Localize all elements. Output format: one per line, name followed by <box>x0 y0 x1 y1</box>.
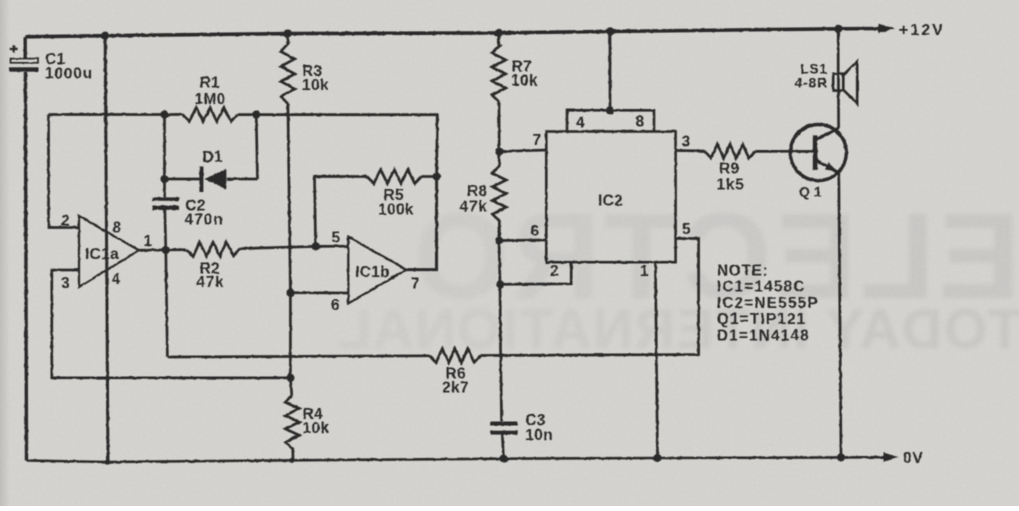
svg-text:10n: 10n <box>525 427 553 444</box>
wire IC1a pin8-pin4 supply vertical <box>105 36 108 462</box>
svg-text:1M0: 1M0 <box>195 91 226 108</box>
wire IC2 pin 6 stub <box>499 239 546 242</box>
wire IC2 pin 2 drop <box>500 262 571 284</box>
pin 8 label IC1a <box>113 220 122 237</box>
node top rail / R3 <box>284 29 292 37</box>
wire feedback row right to IC1b output <box>238 115 438 177</box>
transistor Q1 <box>790 125 846 200</box>
resistor R1 <box>182 75 237 122</box>
svg-text:4: 4 <box>112 271 121 288</box>
0V arrowhead and label <box>884 450 924 467</box>
node top rail / LS1 <box>834 25 842 33</box>
node top rail / IC2 supply <box>606 27 614 35</box>
capacitor C1 <box>9 45 93 83</box>
svg-text:4-8R: 4-8R <box>795 75 829 91</box>
wire +12V top supply rail <box>25 29 880 37</box>
svg-text:D1: D1 <box>203 149 224 166</box>
svg-text:0V: 0V <box>903 450 924 467</box>
svg-text:47k: 47k <box>460 199 488 216</box>
resistor R7 <box>492 33 538 102</box>
node IC2 pin 6 junction <box>495 236 503 244</box>
pin 7 label IC1b <box>411 276 420 293</box>
pin 4 label IC2 <box>576 115 585 132</box>
node feedback/C2/D1 left <box>160 110 168 118</box>
node IC1a output pin 1 <box>162 246 170 254</box>
wire IC2 pin 7 stub <box>499 150 546 152</box>
svg-text:5: 5 <box>332 230 341 247</box>
wire IC2 pins 4-8 supply drop <box>609 31 612 110</box>
svg-text:100k: 100k <box>378 202 414 219</box>
wire left rail top segment <box>24 37 27 59</box>
svg-text:3: 3 <box>61 275 70 292</box>
resistor R9 <box>705 144 756 193</box>
svg-text:1k5: 1k5 <box>717 177 745 194</box>
pin 3 label IC1a <box>61 275 70 292</box>
wire 0V bottom ground rail <box>27 457 886 462</box>
wire left rail bottom segment <box>25 72 26 461</box>
pin 3 label IC2 <box>682 134 691 151</box>
node IC2 pin1 / ground rail <box>653 454 661 462</box>
svg-text:R1: R1 <box>200 75 221 92</box>
svg-text:NOTE:: NOTE: <box>717 263 768 280</box>
op-amp U1 IC1a <box>79 216 139 287</box>
wire IC2 pin 3 stub <box>676 149 705 152</box>
svg-text:7: 7 <box>411 276 420 293</box>
wire C2 lower leg <box>165 209 166 250</box>
node R1 right / D1 right <box>252 111 260 119</box>
node pin3/divider junction <box>286 374 294 382</box>
resistor R2 <box>186 242 240 291</box>
resistor R3 <box>281 34 329 104</box>
svg-text:6: 6 <box>531 223 540 240</box>
resistor R8 <box>460 152 507 241</box>
pin 5 label IC1b <box>332 230 341 247</box>
svg-text:5: 5 <box>682 221 691 238</box>
wire IC1a pin 2 to feedback node <box>49 115 80 228</box>
pin 8 label IC2 <box>636 114 645 131</box>
pin 7 label IC2 <box>533 132 542 149</box>
wire R7 to pin7 node <box>498 102 501 152</box>
pin 1 label IC1a <box>144 233 153 250</box>
node top rail / IC1a supply <box>101 32 109 40</box>
timer IC2 box <box>546 110 675 262</box>
svg-text:3: 3 <box>682 134 691 151</box>
node C3 / ground rail <box>499 455 507 463</box>
wire pin 5 stub IC1b <box>316 245 349 248</box>
svg-text:1000u: 1000u <box>45 66 93 83</box>
svg-text:2k7: 2k7 <box>442 380 469 397</box>
svg-text:IC2: IC2 <box>598 193 623 210</box>
pin 6 label IC1b <box>331 297 340 314</box>
wire IC1a output stub <box>139 248 186 251</box>
node IC2 supply at notch <box>606 106 614 114</box>
node IC2 pin 2 junction <box>496 280 504 288</box>
wire divider vertical <box>288 104 292 396</box>
wire D1 right leg <box>256 115 257 179</box>
node divider / ground rail <box>105 459 110 464</box>
wire R6 to IC2 pin 5 <box>480 239 698 356</box>
wire IC1a pin 3 to divider <box>52 270 291 378</box>
svg-text:IC1=1458C: IC1=1458C <box>717 279 806 296</box>
wire R9 to Q1 base <box>755 150 791 153</box>
diode D1 <box>165 149 258 192</box>
node R5 / IC1b output <box>433 172 441 180</box>
svg-text:R9: R9 <box>719 161 740 178</box>
svg-text:1: 1 <box>640 263 649 280</box>
svg-text:D1=1N4148: D1=1N4148 <box>717 327 810 344</box>
wire C3 lower leg <box>502 434 503 459</box>
pin 2 label IC2 <box>550 263 559 280</box>
svg-text:10k: 10k <box>511 73 538 90</box>
wire C2 upper leg <box>163 179 166 197</box>
svg-text:1: 1 <box>144 233 153 250</box>
svg-text:6: 6 <box>331 297 340 314</box>
svg-text:8: 8 <box>636 114 645 131</box>
svg-text:47k: 47k <box>196 274 224 291</box>
pin 5 label IC2 <box>682 221 691 238</box>
wire R2 to IC1b pin 5 <box>240 246 316 248</box>
wire C3 upper leg <box>500 284 502 421</box>
wire R5 left leg <box>315 177 368 247</box>
svg-text:IC1a: IC1a <box>85 246 119 263</box>
svg-text:TODAY INTERNATIONAL: TODAY INTERNATIONAL <box>336 297 1019 360</box>
pin 1 label IC2 <box>640 263 649 280</box>
wire pin6 down to pin2 node <box>499 241 500 285</box>
wire IC1b pin 6 to divider <box>290 291 348 294</box>
node R4 / ground rail <box>289 458 294 463</box>
capacitor C3 <box>491 412 553 444</box>
svg-text:+12V: +12V <box>899 22 945 39</box>
resistor R5 <box>367 170 422 219</box>
svg-text:7: 7 <box>533 132 542 149</box>
pin 4 label IC1a <box>112 271 121 288</box>
note text block <box>717 263 819 345</box>
node Q1 emitter / ground rail <box>837 453 845 461</box>
resistor R6 <box>430 349 481 397</box>
node pin6 IC1b /divider junction <box>286 289 294 297</box>
svg-text:4: 4 <box>576 115 585 132</box>
wire IC1b output to R5 node <box>407 177 437 270</box>
capacitor C2 <box>152 197 223 228</box>
node IC2 pin 7 junction <box>495 147 503 155</box>
+12V arrowhead and label <box>879 22 945 39</box>
svg-text:IC2=NE555P: IC2=NE555P <box>717 295 819 312</box>
wire feedback row left <box>48 113 182 116</box>
wire IC1a output down leg <box>166 250 168 357</box>
svg-text:R8: R8 <box>467 183 488 200</box>
svg-text:Q1=TIP121: Q1=TIP121 <box>717 311 807 328</box>
svg-text:IC1b: IC1b <box>355 264 390 281</box>
pin 6 label IC2 <box>531 223 540 240</box>
loudspeaker LS1 <box>795 62 858 104</box>
pin 2 label IC1a <box>61 213 70 230</box>
wire +12V to LS1 <box>837 29 840 74</box>
node IC1b pin 5 junction <box>312 242 320 250</box>
svg-text:10k: 10k <box>302 77 329 94</box>
op-amp U2 IC1b <box>348 237 406 304</box>
svg-text:8: 8 <box>113 220 122 237</box>
wire LS1 to Q1 collector <box>837 74 840 129</box>
resistor R4 <box>285 395 329 459</box>
node top rail / R7 <box>495 29 503 37</box>
wire Q1 emitter to 0V <box>839 173 841 458</box>
svg-text:10k: 10k <box>303 420 330 437</box>
wire IC2 pin 1 drop <box>655 262 657 458</box>
wire D1 left leg <box>163 115 166 180</box>
svg-text:470n: 470n <box>185 212 224 229</box>
node D1 anode-left junction <box>160 175 168 183</box>
svg-text:2: 2 <box>550 263 559 280</box>
svg-text:Q1: Q1 <box>799 184 826 200</box>
wire R6 row left <box>167 356 429 357</box>
